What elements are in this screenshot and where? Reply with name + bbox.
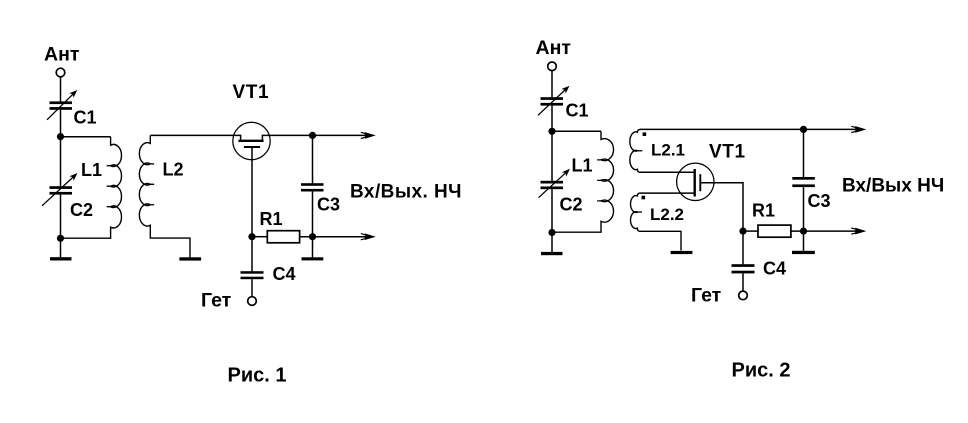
capacitor C4 [241,271,264,279]
ground circuit1 left [50,257,72,260]
capacitor C3 [301,183,324,191]
ground circuit2 left [541,252,563,255]
wire C1 to C2 c2 [551,106,553,181]
wire to R1 c2 [743,230,758,232]
junction A2 [57,235,64,242]
ground under C3 c2 [792,251,815,254]
svg-text:L2.2: L2.2 [650,205,684,224]
svg-text:R1: R1 [752,201,775,221]
capacitor C1 (variable) [47,90,77,120]
resistor R1 c2 [758,225,791,237]
svg-text:R1: R1 [260,209,283,229]
svg-text:Гет: Гет [691,284,721,306]
svg-text:L1: L1 [81,160,102,180]
wire L2.2 to transistor [640,192,695,194]
svg-text:Вх/Вых НЧ: Вх/Вых НЧ [842,175,944,196]
transistor VT1 c2 gate bar [699,174,701,191]
arrow output bottom circuit1 [361,233,376,240]
transistor VT1 c2 channel [694,169,696,197]
capacitor C2 c2 (variable) [539,169,571,198]
junction R1 left c2 [739,228,746,235]
junction top rail c2 [800,126,807,133]
transistor VT1 gate bar [244,146,260,148]
wire antenna to C1 c2 [551,71,553,98]
wire C2 to ground c2 [551,189,553,252]
wire R1 to junction [300,236,371,238]
transistor VT1 channel [238,140,263,142]
svg-text:VT1: VT1 [233,82,270,103]
wire antenna to C1 [60,77,62,102]
inductor L1 [61,137,122,239]
wire C3 to bottom row c2 [803,187,805,231]
junction B1 [548,128,555,135]
wire R1 to output c2 [791,230,861,232]
wire top rail to output c2 [640,128,861,130]
svg-text:C2: C2 [560,195,583,215]
inductor L2.1 [630,129,642,172]
heterodyne terminal circuit1 [248,297,257,306]
polarity dot L2.1 [643,132,647,136]
junction R1 right c2 [800,228,807,235]
wire junction to C3 [312,135,314,183]
svg-text:L2: L2 [163,160,184,180]
junction top C3 [309,132,316,139]
capacitor C2 (variable) [42,173,78,206]
transistor VT1 c2 circle [677,163,714,200]
capacitor C3 c2 [792,177,815,187]
svg-text:Рис. 1: Рис. 1 [228,365,287,387]
junction R1 left [248,233,255,240]
svg-text:C4: C4 [763,259,786,279]
heterodyne terminal circuit2 [739,291,748,300]
wire junction to ground [312,237,314,258]
antenna terminal circuit 2 [548,62,557,71]
transistor VT1 c2 gate lead [700,183,743,231]
svg-text:C2: C2 [70,200,93,220]
ground under C3 junction [302,257,324,260]
resistor R1 [267,231,299,243]
capacitor C1 c2 (variable) [538,86,570,116]
wire L2 to transistor source [150,135,240,139]
junction R1 right [309,233,316,240]
svg-text:L1: L1 [572,156,593,176]
wire C2 to ground [60,195,62,258]
arrow output top circuit2 [851,126,866,133]
arrow output bottom circuit2 [851,228,866,235]
wire C4 to heterodyne terminal [251,279,253,296]
antenna terminal circuit 1 [56,68,65,77]
svg-text:C3: C3 [808,191,831,211]
svg-text:L2.1: L2.1 [651,141,685,160]
inductor L2 [139,135,190,257]
wire C4 to heterodyne terminal c2 [742,273,744,291]
wire junction to L1 [61,136,111,138]
svg-text:Ант: Ант [44,43,79,65]
svg-text:VT1: VT1 [709,142,746,163]
wire junction to L1 c2 [552,130,601,132]
wire junction to ground c2 [803,231,805,251]
wire transistor drain to output [262,135,370,139]
junction A1 [57,133,64,140]
wire C1 to junction to C2 [60,110,62,186]
svg-text:C3: C3 [317,195,340,215]
svg-text:C4: C4 [273,264,296,284]
wire L2.1 to transistor [640,171,695,173]
svg-text:Гет: Гет [201,289,231,311]
wire top junction to C3 c2 [803,129,805,177]
transistor VT1 gate lead down [251,147,253,271]
wire junction to C4 c2 [742,231,744,264]
svg-text:Вх/Вых. НЧ: Вх/Вых. НЧ [350,182,462,203]
svg-text:Ант: Ант [536,37,571,59]
wire C3 to bottom row [312,192,314,237]
svg-text:C1: C1 [74,108,97,128]
transistor VT1 circle [233,122,270,159]
inductor L1 c2 [552,131,614,232]
wire to R1 [252,236,267,238]
arrow output top circuit1 [361,132,376,139]
svg-text:C1: C1 [566,101,589,121]
inductor L2.2 [631,193,681,250]
junction B2 [548,229,555,236]
capacitor C4 c2 [732,264,755,273]
ground under L2 [179,257,201,260]
svg-text:Рис. 2: Рис. 2 [732,360,791,382]
polarity dot L2.2 [642,196,646,200]
ground under L2.2 [671,251,693,254]
